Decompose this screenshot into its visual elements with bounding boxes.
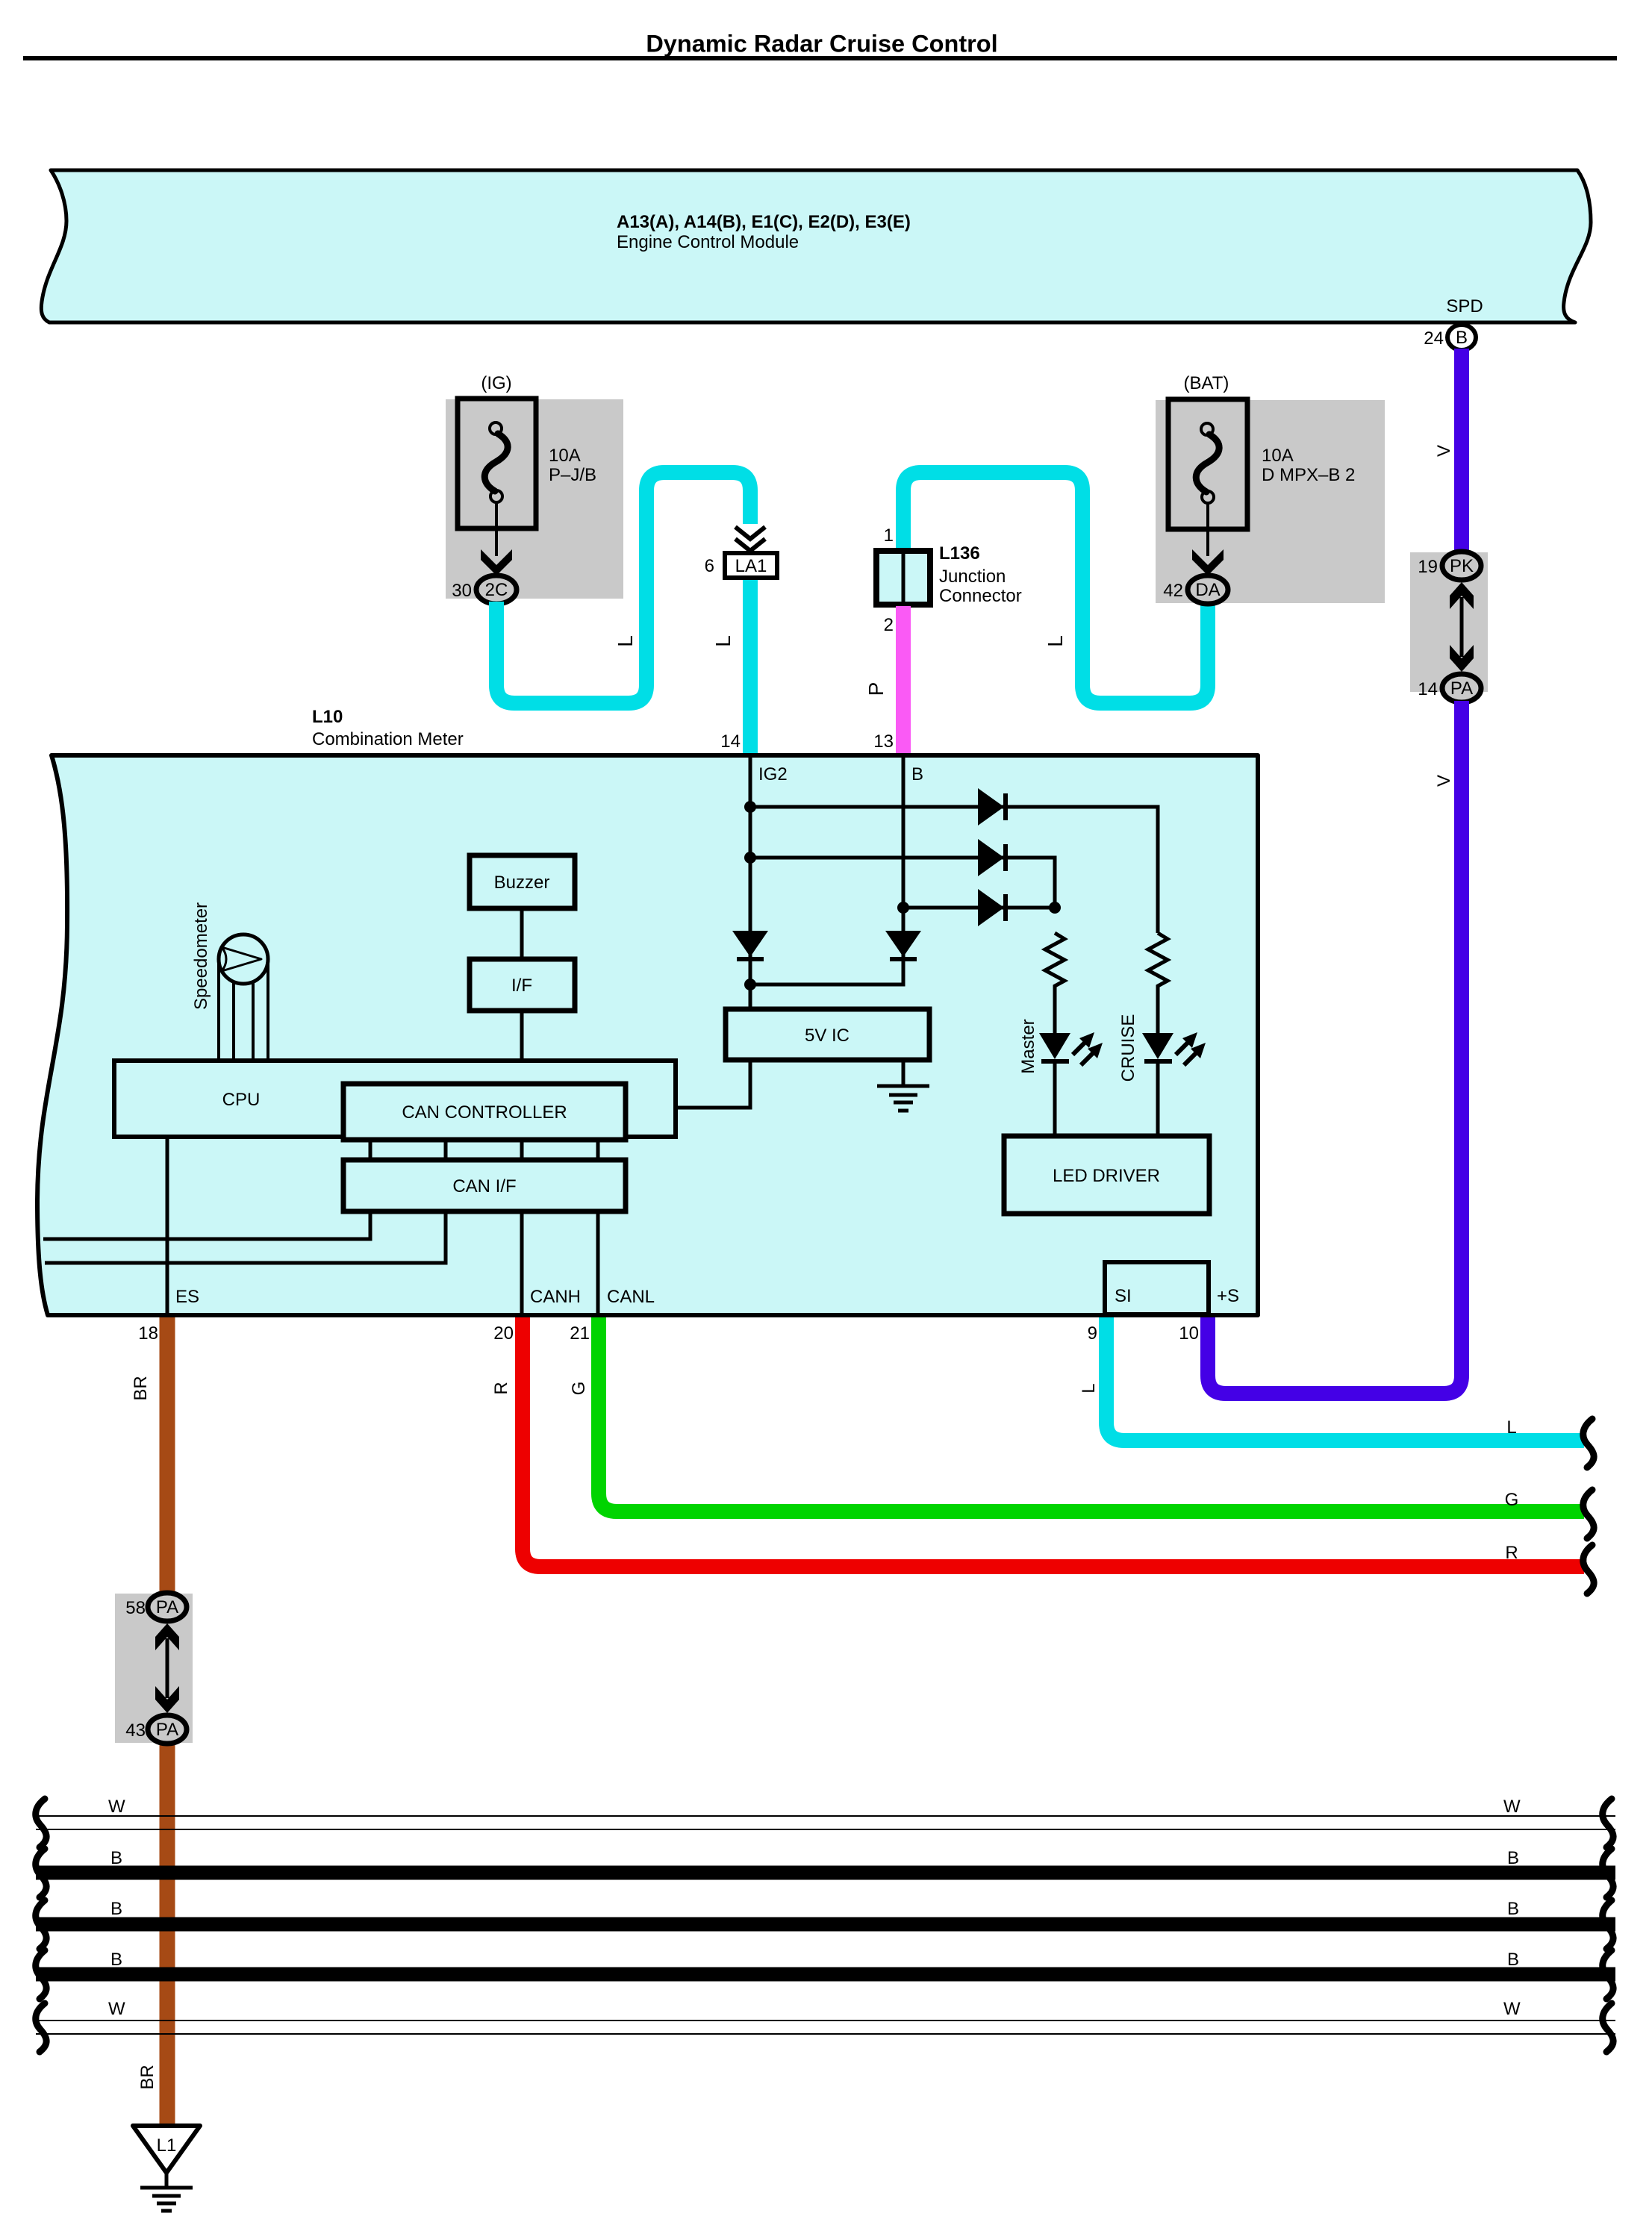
svg-text:Buzzer: Buzzer — [494, 873, 550, 893]
svg-text:5V IC: 5V IC — [805, 1026, 850, 1046]
diode D5 on B line (down) — [885, 931, 921, 961]
svg-text:10: 10 — [1179, 1323, 1199, 1344]
title Dynamic Radar Cruise Control — [23, 31, 1617, 61]
svg-text:L: L — [1506, 1417, 1516, 1438]
svg-text:IG2: IG2 — [758, 764, 788, 784]
LED DRIVER block — [1004, 1136, 1209, 1214]
wire L cyan from pin 9 — [1106, 1317, 1584, 1441]
5V IC block — [726, 1009, 929, 1060]
wire L cyan from junction L136 pin1 to DA — [903, 472, 1208, 703]
wire IG2 internal vertical — [749, 755, 752, 1011]
svg-text:SPD: SPD — [1446, 296, 1483, 316]
wire R red from pin 20 — [523, 1317, 1584, 1567]
wire break at L end — [1583, 1419, 1594, 1467]
svg-text:42: 42 — [1163, 581, 1183, 601]
svg-text:L: L — [711, 635, 735, 647]
fuse value label 10A D MPX-B 2 — [1262, 446, 1355, 485]
pin 30 2C oval — [452, 575, 517, 604]
svg-text:P–J/B: P–J/B — [549, 465, 596, 485]
wire P pink from junction pin2 to meter pin 13 — [896, 606, 911, 754]
wire Buzzer to I/F — [520, 908, 524, 959]
bus wire W (top, shown as double thin lines) — [36, 1816, 1615, 1829]
bus break right B1 — [1603, 1849, 1613, 1897]
bus break right W bottom — [1603, 2003, 1613, 2052]
wire CANL internal — [596, 1211, 600, 1315]
svg-text:DA: DA — [1195, 580, 1220, 600]
svg-text:CRUISE: CRUISE — [1118, 1014, 1138, 1082]
ground L1 — [133, 2126, 200, 2211]
node dot IG2/row1 — [744, 801, 756, 813]
wire V violet from PA down, left to meter pin 10 — [1208, 701, 1462, 1394]
svg-text:LA1: LA1 — [735, 556, 767, 576]
svg-text:P: P — [864, 682, 888, 696]
svg-text:2: 2 — [884, 615, 894, 635]
node dot IG2/row2 — [744, 852, 756, 864]
svg-text:(IG): (IG) — [481, 373, 511, 393]
LED Master indicator — [1039, 1032, 1103, 1065]
svg-text:13: 13 — [873, 731, 894, 752]
wire V violet from ECM pin 24 down to PK — [1454, 349, 1469, 554]
svg-text:D MPX–B 2: D MPX–B 2 — [1262, 465, 1355, 485]
node dot above 5V IC — [744, 979, 756, 990]
svg-text:G: G — [569, 1382, 589, 1396]
wire L cyan from 2C to LA1 — [496, 472, 750, 703]
bus break right W top — [1603, 1799, 1613, 1847]
wire diode row 2 to Master branch — [750, 858, 1055, 908]
bus wire B (first black) — [36, 1866, 1615, 1880]
svg-text:Master: Master — [1018, 1019, 1038, 1073]
connector pair PA/PA gray block — [115, 1594, 193, 1743]
pin 19 PK oval — [1418, 552, 1481, 580]
bus wire B (third black) — [36, 1968, 1615, 1982]
svg-text:+S: +S — [1217, 1286, 1239, 1306]
svg-text:14: 14 — [720, 731, 741, 752]
fuse block (IG) gray panel — [446, 399, 623, 599]
wire I/F to CPU — [520, 1011, 524, 1061]
wire break at G end — [1583, 1490, 1594, 1538]
svg-text:L: L — [1079, 1383, 1099, 1393]
svg-text:Speedometer: Speedometer — [191, 902, 211, 1010]
diode D2 row2 — [978, 839, 1008, 876]
svg-text:CANH: CANH — [530, 1287, 581, 1307]
svg-text:9: 9 — [1088, 1323, 1097, 1344]
svg-text:Engine Control Module: Engine Control Module — [617, 232, 799, 252]
svg-text:43: 43 — [125, 1720, 146, 1741]
CPU block — [114, 1061, 676, 1137]
svg-text:30: 30 — [452, 581, 472, 601]
svg-text:CANL: CANL — [607, 1287, 655, 1307]
svg-text:W: W — [1503, 1797, 1521, 1817]
wire break at R end — [1583, 1545, 1594, 1594]
bus break left B1 — [36, 1849, 46, 1897]
svg-text:CAN I/F: CAN I/F — [452, 1176, 516, 1196]
svg-text:B: B — [1456, 328, 1468, 348]
svg-text:B: B — [110, 1950, 122, 1970]
svg-text:58: 58 — [125, 1598, 146, 1618]
wire CANH internal — [520, 1211, 524, 1315]
svg-text:24: 24 — [1424, 328, 1444, 349]
fuse value label 10A P-J/B — [549, 446, 596, 485]
svg-text:Dynamic Radar Cruise Control: Dynamic Radar Cruise Control — [646, 31, 997, 57]
wire CAN I/F tap to left edge (lower) — [45, 1211, 446, 1263]
svg-text:LED DRIVER: LED DRIVER — [1053, 1166, 1160, 1186]
svg-text:21: 21 — [570, 1323, 590, 1344]
wire 5V IC to CPU — [676, 1060, 750, 1108]
junction connector L136 — [876, 525, 930, 635]
svg-text:Junction: Junction — [939, 567, 1006, 587]
wires speedometer to CPU — [219, 959, 268, 1061]
SI pin box — [1105, 1262, 1209, 1314]
splice chevron into LA1 — [735, 527, 765, 551]
bus break left W top — [36, 1799, 46, 1847]
wire CRUISE LED to LED DRIVER — [1156, 1064, 1160, 1138]
bus wire W (bottom, double thin lines) — [36, 2021, 1615, 2034]
I/F block — [470, 959, 575, 1011]
inter-connector arrow between PK and PA — [1450, 582, 1474, 672]
svg-text:18: 18 — [138, 1323, 158, 1344]
svg-text:W: W — [1503, 1999, 1521, 2019]
inter-connector arrow between PA and PA — [155, 1623, 179, 1713]
svg-text:20: 20 — [493, 1323, 514, 1344]
wire B internal vertical — [750, 755, 903, 984]
svg-text:6: 6 — [705, 556, 714, 576]
pin 24 B of ECM — [1424, 325, 1476, 350]
wire BR brown from pin 18 to ground — [160, 1317, 175, 2127]
bus break right B2 — [1603, 1900, 1613, 1949]
bus break left B3 — [36, 1950, 46, 1999]
wire L cyan from LA1 to meter pin 14 — [743, 580, 758, 754]
pin 42 DA oval — [1163, 575, 1228, 604]
svg-text:Combination Meter: Combination Meter — [312, 729, 464, 749]
svg-text:W: W — [108, 1999, 125, 2019]
wire from fuse to connector DA with arrow — [1192, 503, 1224, 575]
fuse block (BAT) gray panel — [1156, 400, 1385, 603]
svg-text:(BAT): (BAT) — [1184, 373, 1229, 393]
wire CAN I/F tap to left edge (upper) — [43, 1211, 370, 1239]
wire diode row 3 — [903, 906, 1055, 910]
wire G green from pin 21 — [599, 1317, 1584, 1511]
bus break right B3 — [1603, 1950, 1613, 1999]
svg-text:B: B — [911, 764, 923, 784]
svg-text:R: R — [491, 1382, 511, 1394]
svg-text:G: G — [1505, 1490, 1519, 1510]
svg-text:10A: 10A — [1262, 446, 1294, 466]
svg-text:L: L — [1044, 635, 1067, 647]
svg-text:B: B — [1507, 1899, 1519, 1919]
combination meter label L10 — [312, 707, 464, 749]
svg-text:PA: PA — [156, 1597, 178, 1617]
svg-text:B: B — [1507, 1848, 1519, 1868]
svg-text:SI: SI — [1115, 1286, 1132, 1306]
svg-text:10A: 10A — [549, 446, 581, 466]
svg-text:Connector: Connector — [939, 586, 1022, 606]
ground inside meter below 5V IC — [877, 1060, 929, 1111]
resistor R1 Master branch — [1045, 933, 1065, 1033]
diode D1 row1 — [978, 788, 1008, 826]
Buzzer block — [470, 855, 575, 908]
svg-text:14: 14 — [1418, 679, 1438, 699]
svg-text:L10: L10 — [312, 707, 343, 727]
ECM module band A13/A14/E1/E2/E3 — [41, 170, 1591, 322]
svg-text:PK: PK — [1450, 556, 1474, 576]
svg-text:L1: L1 — [157, 2135, 177, 2156]
CAN I/F block — [343, 1160, 626, 1211]
svg-text:BR: BR — [131, 1376, 151, 1400]
fuse 10A P-J/B — [458, 399, 536, 528]
bus wire B (second black) — [36, 1917, 1615, 1932]
svg-text:1: 1 — [884, 525, 894, 546]
label L136 Junction Connector — [939, 543, 1022, 606]
svg-text:19: 19 — [1418, 557, 1438, 577]
svg-text:2C: 2C — [485, 580, 508, 600]
svg-text:I/F: I/F — [511, 976, 532, 996]
svg-text:W: W — [108, 1797, 125, 1817]
pin 58 PA oval — [125, 1593, 187, 1621]
wire ES internal from CPU — [166, 1137, 169, 1315]
wires CAN CONTROLLER to CAN I/F — [370, 1140, 598, 1160]
svg-text:CPU: CPU — [222, 1090, 261, 1110]
svg-text:CAN CONTROLLER: CAN CONTROLLER — [402, 1102, 567, 1123]
svg-text:A13(A), A14(B), E1(C), E2(D),: A13(A), A14(B), E1(C), E2(D), E3(E) — [617, 212, 911, 232]
svg-text:PA: PA — [156, 1720, 178, 1740]
pin 14 PA oval — [1418, 674, 1481, 702]
svg-text:L136: L136 — [939, 543, 980, 564]
connector pair PK/PA gray block — [1410, 552, 1488, 692]
LED CRUISE indicator — [1142, 1032, 1206, 1065]
wire Master LED to LED DRIVER — [1053, 1064, 1057, 1138]
combination meter box L10 — [37, 755, 1258, 1315]
svg-text:L: L — [614, 635, 637, 647]
diode D4 on IG2 line (down) — [732, 931, 768, 961]
svg-text:PA: PA — [1450, 678, 1473, 699]
diode D3 row3 — [978, 889, 1008, 926]
svg-text:B: B — [110, 1848, 122, 1868]
bus break left B2 — [36, 1900, 46, 1949]
node dot B/row3 — [897, 902, 909, 914]
connector 6 LA1 — [705, 553, 777, 578]
svg-text:V: V — [1434, 445, 1454, 457]
svg-text:V: V — [1434, 775, 1454, 787]
bus break left W bottom — [36, 2003, 46, 2052]
speedometer gauge — [219, 934, 268, 984]
svg-text:ES: ES — [175, 1287, 199, 1307]
svg-text:B: B — [1507, 1950, 1519, 1970]
wire diode row 1 to CRUISE branch — [750, 807, 1158, 933]
resistor R2 CRUISE branch — [1148, 933, 1168, 1033]
svg-text:R: R — [1505, 1543, 1518, 1563]
node dot Master join — [1049, 902, 1061, 914]
fuse 10A D MPX-B 2 — [1168, 399, 1247, 529]
CAN CONTROLLER block — [343, 1084, 626, 1140]
svg-text:BR: BR — [137, 2065, 158, 2089]
svg-text:B: B — [110, 1899, 122, 1919]
wire from fuse to connector 2C with arrow — [481, 502, 512, 575]
pin 43 PA oval — [125, 1715, 187, 1744]
